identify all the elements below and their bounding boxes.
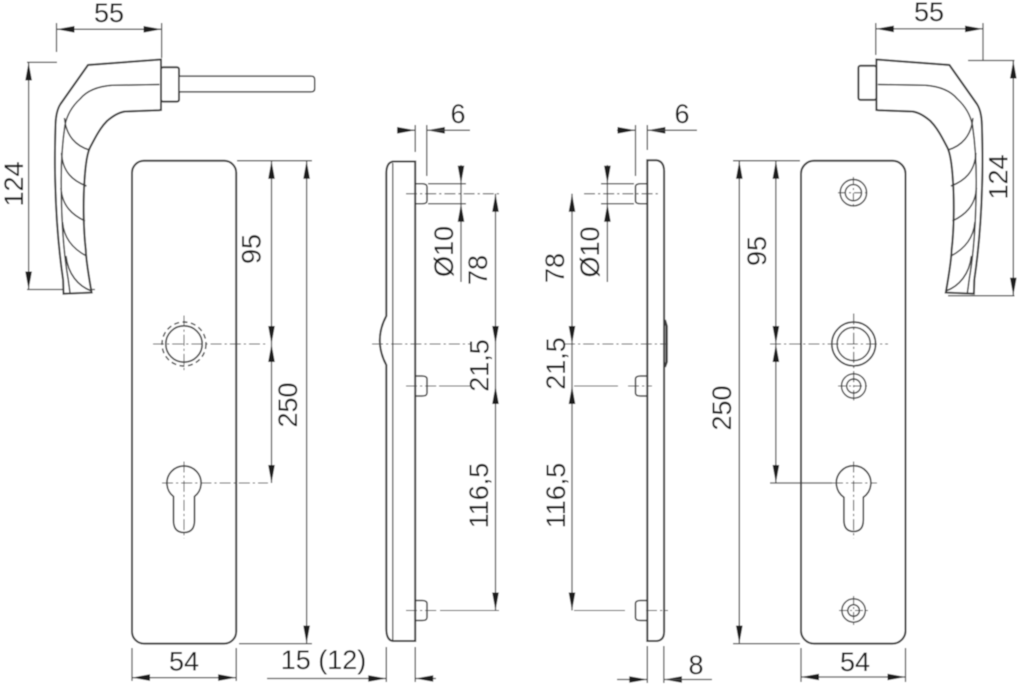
inner plate dimension 54	[800, 648, 802, 682]
svg-text:95: 95	[237, 234, 267, 264]
outer plate side profile	[380, 162, 415, 642]
inner plate dimension 95	[775, 161, 777, 483]
inner plate top screw hole	[840, 180, 866, 206]
left handle grip scallops	[65, 118, 90, 150]
svg-text:55: 55	[94, 0, 124, 28]
side view 2 centerlines	[584, 193, 658, 195]
left handle inner grip line	[61, 85, 159, 293]
inner plate lever centerline extension	[770, 343, 888, 345]
svg-text:116,5: 116,5	[464, 463, 494, 529]
outer plate side screw bosses	[415, 184, 427, 204]
side view 1 dimension diam 10	[428, 183, 466, 185]
svg-text:8: 8	[688, 650, 703, 680]
inner plate front view	[801, 161, 906, 644]
svg-text:21,5: 21,5	[465, 339, 495, 392]
svg-text:15 (12): 15 (12)	[281, 645, 367, 675]
side view 1 centerlines	[406, 193, 500, 195]
outer plate front view	[132, 161, 236, 644]
inner plate bottom screw hole	[842, 599, 865, 622]
side view 1 dimensions 78 / 21,5 / 116,5	[495, 194, 497, 611]
svg-text:124: 124	[984, 154, 1014, 199]
left lever handle body	[55, 60, 161, 294]
right lever handle dimension 55	[875, 23, 877, 55]
inner plate side profile	[647, 160, 664, 641]
inner plate cylinder keyhole	[836, 466, 871, 532]
right handle spindle stub	[858, 66, 876, 100]
svg-text:6: 6	[674, 99, 689, 129]
left handle spindle	[179, 76, 315, 92]
svg-text:Ø10: Ø10	[575, 226, 605, 277]
side view 1 dimension 6	[414, 125, 416, 152]
svg-text:55: 55	[914, 0, 944, 27]
right handle grip scallops	[948, 118, 973, 150]
svg-text:116,5: 116,5	[541, 463, 571, 529]
svg-text:250: 250	[273, 382, 303, 427]
inner plate side screw bosses	[636, 184, 648, 204]
outer plate side inner contour	[392, 163, 394, 640]
left lever handle dimension 55	[56, 23, 58, 52]
svg-text:250: 250	[707, 385, 737, 430]
svg-text:6: 6	[450, 99, 465, 129]
svg-text:95: 95	[742, 236, 772, 266]
side view 2 dimension 6	[635, 125, 637, 176]
outer plate lever hole	[166, 326, 202, 362]
dimension 8 inner plate thickness	[646, 646, 648, 683]
outer plate cylinder keyhole	[167, 466, 201, 533]
outer plate dimension 54	[131, 648, 133, 681]
svg-text:Ø10: Ø10	[429, 226, 459, 277]
dimension 15 (12) plate thickness	[267, 678, 386, 680]
side view 2 dimension diam 10	[601, 183, 634, 185]
left lever handle dimension 124	[27, 61, 57, 63]
inner plate lever hole	[832, 322, 876, 366]
outer plate dimension 250	[237, 160, 312, 162]
right lever handle body	[876, 60, 982, 294]
side view 2 dimensions 78 / 21,5 / 116,5	[571, 194, 573, 611]
svg-text:78: 78	[463, 255, 493, 285]
outer plate dimension 95	[271, 161, 273, 483]
right handle inner grip line	[878, 85, 976, 293]
svg-text:54: 54	[840, 647, 870, 677]
left handle collar	[161, 67, 179, 101]
inner plate dimension 250	[733, 160, 800, 162]
svg-text:21,5: 21,5	[541, 337, 571, 390]
right lever handle dimension 124	[968, 60, 1015, 62]
svg-text:124: 124	[0, 161, 29, 206]
inner plate keyhole centerline extension	[770, 482, 832, 484]
inner plate side bearing collar	[665, 320, 667, 367]
svg-text:78: 78	[540, 253, 570, 283]
inner plate intermediate screw hole	[842, 374, 866, 398]
svg-text:54: 54	[169, 647, 199, 677]
